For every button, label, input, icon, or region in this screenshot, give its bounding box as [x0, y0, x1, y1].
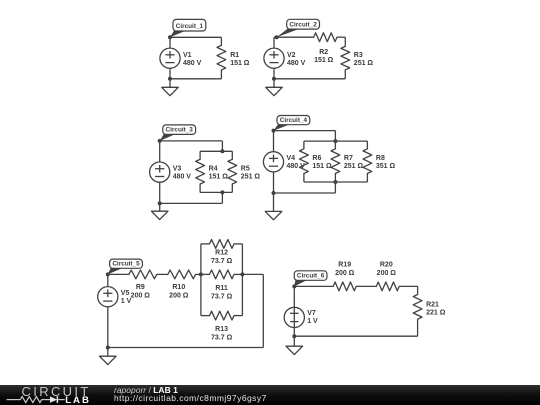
svg-text:R21: R21 — [426, 302, 439, 309]
svg-text:73.7 Ω: 73.7 Ω — [211, 294, 233, 301]
svg-text:200 Ω: 200 Ω — [377, 270, 397, 277]
svg-text:R10: R10 — [172, 284, 185, 291]
svg-text:V1: V1 — [183, 52, 192, 59]
svg-text:151 Ω: 151 Ω — [209, 173, 229, 180]
svg-text:V5: V5 — [121, 290, 130, 297]
svg-text:Circuit_6: Circuit_6 — [297, 273, 325, 280]
svg-text:251 Ω: 251 Ω — [344, 163, 364, 170]
svg-text:251 Ω: 251 Ω — [241, 173, 261, 180]
svg-text:73.7 Ω: 73.7 Ω — [211, 335, 233, 342]
svg-text:Circuit_3: Circuit_3 — [166, 127, 194, 134]
svg-text:251 Ω: 251 Ω — [354, 60, 374, 67]
svg-text:151 Ω: 151 Ω — [230, 60, 250, 67]
svg-text:480 V: 480 V — [173, 173, 192, 180]
svg-text:Circuit_5: Circuit_5 — [112, 261, 140, 268]
svg-text:1 V: 1 V — [307, 318, 318, 325]
svg-text:R6: R6 — [312, 155, 321, 162]
svg-text:351 Ω: 351 Ω — [376, 163, 396, 170]
svg-text:R8: R8 — [376, 155, 385, 162]
svg-text:R3: R3 — [354, 52, 363, 59]
svg-text:200 Ω: 200 Ω — [335, 270, 355, 277]
svg-text:R20: R20 — [380, 262, 393, 269]
svg-text:R5: R5 — [241, 165, 250, 172]
svg-text:151 Ω: 151 Ω — [312, 163, 332, 170]
svg-text:V4: V4 — [287, 155, 296, 162]
svg-text:480 V: 480 V — [287, 163, 306, 170]
svg-text:R9: R9 — [136, 284, 145, 291]
svg-text:Circuit_4: Circuit_4 — [280, 117, 308, 124]
svg-text:151 Ω: 151 Ω — [314, 57, 334, 64]
svg-text:V3: V3 — [173, 165, 182, 172]
svg-text:Circuit_1: Circuit_1 — [176, 23, 204, 30]
svg-text:V2: V2 — [287, 52, 296, 59]
svg-text:R2: R2 — [319, 49, 328, 56]
svg-text:R19: R19 — [338, 262, 351, 269]
svg-text:R13: R13 — [215, 326, 228, 333]
svg-text:221 Ω: 221 Ω — [426, 310, 446, 317]
svg-text:480 V: 480 V — [183, 60, 202, 67]
svg-text:R11: R11 — [215, 285, 228, 292]
svg-text:V7: V7 — [307, 310, 316, 317]
svg-text:R4: R4 — [209, 165, 218, 172]
svg-text:R12: R12 — [215, 250, 228, 257]
svg-text:73.7 Ω: 73.7 Ω — [211, 258, 233, 265]
svg-text:200 Ω: 200 Ω — [169, 293, 189, 300]
svg-text:R1: R1 — [230, 52, 239, 59]
svg-text:Circuit_2: Circuit_2 — [289, 21, 317, 28]
svg-text:480 V: 480 V — [287, 60, 306, 67]
svg-text:R7: R7 — [344, 155, 353, 162]
svg-text:200 Ω: 200 Ω — [131, 293, 151, 300]
